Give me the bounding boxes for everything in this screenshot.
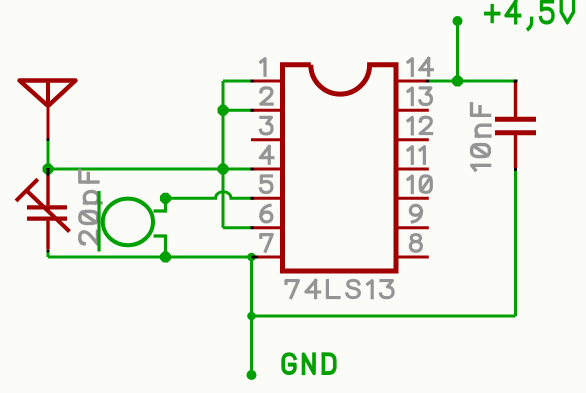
pin number 14 [408, 59, 412, 75]
supply point GND [247, 370, 257, 380]
cap C2 plate upper [495, 117, 536, 122]
pin number 8 [410, 235, 421, 252]
pin number 3 [260, 117, 272, 134]
pin 5 stub [254, 197, 280, 200]
junction pin7 [247, 253, 256, 262]
wire: trimmer bottom connection [47, 250, 50, 258]
pin 4 stub [254, 168, 280, 171]
trimmer adjust T-bar [16, 179, 38, 201]
pin number 5 [260, 176, 271, 193]
pin 10 stub [399, 197, 429, 200]
cap C2 plate lower [495, 130, 536, 135]
antenna pin connect tick [47, 138, 50, 141]
pin number 11 [408, 147, 412, 163]
wire: bus to pin 6 [223, 226, 252, 229]
junction bus pin2 [218, 105, 229, 116]
microphone diaphragm line [97, 191, 100, 252]
pin number 13 [408, 88, 412, 104]
junction bus pin4 [218, 164, 229, 175]
IC value 74LS13 [286, 281, 298, 298]
value 20pF [80, 232, 98, 244]
wire: pin7 down to GND [250, 257, 253, 375]
cap C2 top lead [514, 83, 517, 118]
wire: bottom net trimmer to pin 7 [48, 256, 252, 259]
cap C2 bottom lead [514, 135, 517, 168]
wire: supply junction to cap top [458, 80, 515, 83]
microphone body circle [103, 199, 153, 246]
pin number 2 [261, 88, 272, 104]
pin number 1 [261, 59, 265, 75]
supply point +4.5V [453, 16, 463, 26]
pin 9 stub [399, 226, 429, 229]
pin 13 stub [399, 109, 429, 112]
label +4,5V [486, 6, 499, 21]
cap C2 bottom connect tick [514, 168, 517, 171]
pin 12 stub [399, 138, 429, 141]
antenna symbol [20, 81, 76, 107]
pin 8 stub [399, 256, 429, 259]
junction bottom return [247, 312, 256, 321]
junction mic upper [160, 193, 171, 204]
pin number 9 [410, 205, 421, 222]
junction antenna/trimmer/pin4 net [43, 164, 54, 175]
pin 7 stub [254, 256, 280, 259]
pin 3 stub [251, 138, 280, 141]
wire: bus to pin 2 [223, 109, 252, 112]
wire: antenna feed down to junction [47, 141, 50, 170]
IC U1 body with notch [283, 65, 397, 271]
wire: pin14 to supply junction [429, 80, 458, 83]
trimmer adjust arrow diagonal [27, 191, 70, 232]
label GND [283, 354, 295, 373]
antenna pin [47, 108, 50, 138]
trimmer cap bottom pin [46, 221, 49, 249]
pin 1 stub [254, 80, 280, 83]
pin number 12 [408, 117, 412, 133]
pin number 10 [408, 176, 412, 192]
pin number 4 [260, 147, 273, 164]
value 10nF [472, 165, 490, 170]
pin 11 stub [399, 168, 429, 171]
junction supply/pin14 [452, 76, 463, 87]
trimmer cap bottom connect tick [47, 249, 50, 252]
wire: bus to pin 1 [223, 80, 252, 83]
wire: trimmer top connection [47, 169, 50, 174]
trimmer cap plate lower [27, 217, 67, 221]
wire: left bus vertical x=223 (pin1 to pin6 row) [222, 81, 225, 228]
wire: cap bottom lead to return [514, 171, 517, 317]
pin 14 stub [399, 80, 427, 83]
wire: bottom return y=316 [252, 315, 516, 318]
pin 2 stub [254, 109, 280, 112]
wire: +4.5V drop to pin14 junction [456, 21, 459, 81]
pin 6 stub [254, 226, 280, 229]
wire: mic to pin 5 with hop over bus [166, 192, 253, 199]
pin number 7 [261, 235, 272, 252]
microphone upper terminal [154, 198, 166, 211]
wire: junction A to pin 4 horizontal [48, 168, 223, 171]
cap C2 top connect tick [514, 80, 518, 83]
trimmer cap plate upper [27, 205, 67, 209]
wire: bus to pin 4 [223, 168, 252, 171]
microphone lower terminal [154, 236, 166, 257]
trimmer cap top pin [46, 175, 49, 205]
pin number 6 [261, 205, 272, 222]
junction mic lower [160, 252, 171, 263]
